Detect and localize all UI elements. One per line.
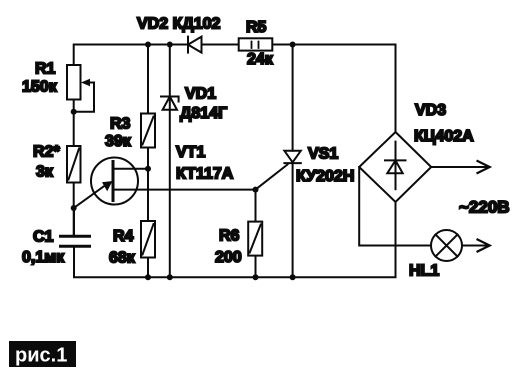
resistor R1 (potentiometer) bbox=[67, 65, 94, 112]
svg-text:Д814Г: Д814Г bbox=[180, 105, 227, 122]
transistor VT1 (unijunction) bbox=[74, 158, 256, 209]
svg-text:R1: R1 bbox=[35, 61, 56, 78]
svg-text:HL1: HL1 bbox=[409, 263, 439, 280]
node: base2/R6/gate junction bbox=[253, 187, 259, 193]
wire: lamp output arrow bbox=[462, 240, 490, 252]
node: top rail / VS1 bbox=[290, 42, 296, 48]
node: R2/C1/emitter junction bbox=[71, 205, 77, 211]
svg-text:КТ117А: КТ117А bbox=[176, 166, 234, 183]
resistor R4 bbox=[141, 221, 155, 258]
svg-text:рис.1: рис.1 bbox=[15, 345, 67, 367]
thyristor VS1 bbox=[256, 151, 301, 190]
svg-text:R2*: R2* bbox=[33, 144, 60, 161]
svg-text:C1: C1 bbox=[33, 229, 54, 246]
bridge rectifier VD3 bbox=[359, 132, 431, 202]
svg-text:3к: 3к bbox=[36, 164, 54, 181]
node: bottom rail / R3R4 bbox=[145, 274, 151, 280]
wire: bridge left vertex to lamp bbox=[359, 167, 431, 246]
wire: AC output arrow top bbox=[431, 161, 490, 173]
svg-text:R5: R5 bbox=[246, 19, 267, 36]
wire top rail bbox=[74, 45, 396, 133]
svg-text:0,1мк: 0,1мк bbox=[22, 249, 65, 266]
svg-text:VT1: VT1 bbox=[176, 144, 205, 161]
svg-text:КУ202Н: КУ202Н bbox=[296, 168, 354, 185]
svg-text:R4: R4 bbox=[113, 228, 134, 245]
svg-text:VD3: VD3 bbox=[415, 102, 446, 119]
diode VD2 bbox=[188, 37, 202, 53]
node: R1 wiper junction bbox=[71, 109, 77, 115]
wire VD1 branch bbox=[169, 45, 171, 278]
capacitor C1 bbox=[61, 208, 90, 246]
svg-text:150к: 150к bbox=[22, 79, 58, 96]
resistor R3 bbox=[141, 114, 155, 148]
svg-text:R3: R3 bbox=[110, 116, 131, 133]
node: top rail / VD1 bbox=[167, 42, 173, 48]
node: top rail / R3 bbox=[145, 42, 151, 48]
wire bottom rail bbox=[74, 202, 396, 277]
svg-text:39к: 39к bbox=[105, 133, 132, 150]
svg-text:24к: 24к bbox=[247, 51, 274, 68]
svg-text:VD2 КД102: VD2 КД102 bbox=[137, 16, 221, 33]
wire VS1 branch bbox=[292, 45, 294, 278]
svg-text:КЦ402А: КЦ402А bbox=[414, 128, 474, 145]
zener diode VD1 bbox=[161, 97, 179, 110]
svg-text:200: 200 bbox=[215, 249, 242, 266]
svg-text:VD1: VD1 bbox=[185, 86, 216, 103]
wire R3 R4 branch bbox=[147, 45, 149, 278]
wire left branch R1-R2-C1 bbox=[73, 100, 75, 147]
node: base1 to R3/R4 junction bbox=[145, 166, 151, 172]
svg-text:R6: R6 bbox=[219, 228, 240, 245]
resistor R6 bbox=[248, 222, 262, 256]
svg-text:VS1: VS1 bbox=[308, 146, 338, 163]
node: bottom rail / VD1 bbox=[167, 274, 173, 280]
wire R2 to C1 bbox=[73, 183, 75, 236]
resistor R5 bbox=[239, 38, 273, 50]
wire R6 branch bbox=[255, 190, 257, 278]
caption рис.1 bbox=[9, 341, 76, 367]
lamp HL1 bbox=[431, 230, 462, 261]
svg-text:~220В: ~220В bbox=[459, 198, 510, 217]
svg-text:68к: 68к bbox=[109, 250, 136, 267]
node: bottom rail / R6 bbox=[253, 274, 259, 280]
resistor R2 bbox=[67, 146, 81, 183]
node: bottom rail / VS1 bbox=[290, 274, 296, 280]
